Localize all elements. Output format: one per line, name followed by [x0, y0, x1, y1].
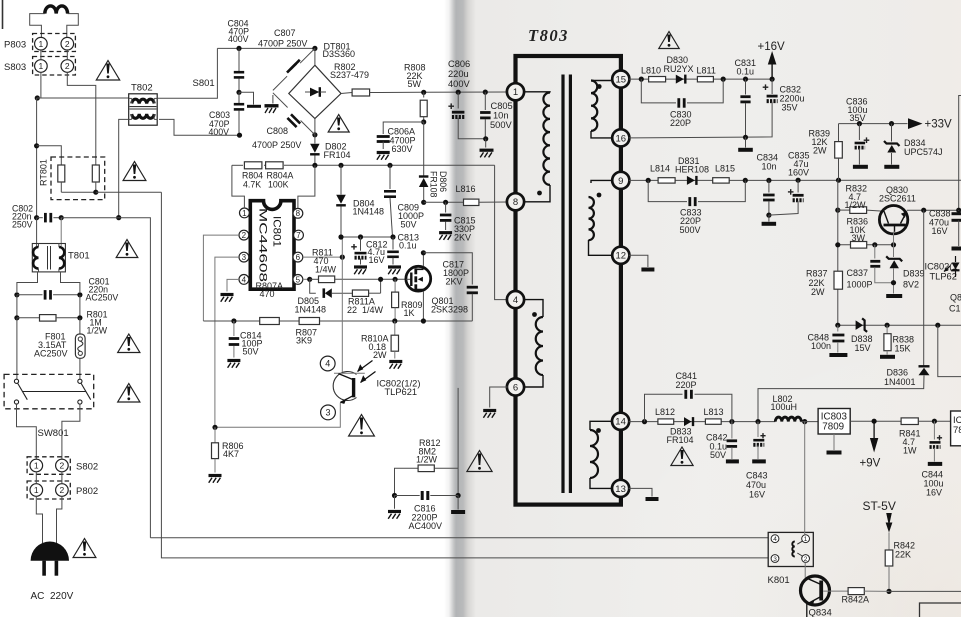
warning triangle 7 — [349, 415, 375, 437]
ground R810A — [389, 362, 402, 369]
svg-text:1/2W: 1/2W — [87, 326, 108, 336]
ground C812 — [354, 267, 367, 274]
svg-text:IC801: IC801 — [271, 216, 283, 247]
capacitor C831 — [735, 58, 757, 137]
relay K801 — [768, 532, 814, 586]
resistor R807A — [256, 281, 284, 325]
wire 15V row — [838, 324, 961, 326]
power ST-5V arrow — [863, 499, 896, 550]
wire source down — [422, 291, 424, 321]
capacitor C844 — [922, 421, 944, 497]
ground R806 — [209, 476, 222, 483]
svg-text:10n: 10n — [493, 110, 509, 120]
svg-text:L816: L816 — [456, 184, 476, 194]
pin 6 T803 — [507, 378, 524, 395]
node L815 right — [743, 178, 748, 183]
connector P803 — [4, 34, 75, 52]
winding T803 1-8 primary — [523, 92, 550, 202]
svg-text:250V: 250V — [12, 220, 33, 230]
node C803 bottom junction — [237, 133, 242, 138]
node D834 junction — [889, 121, 894, 126]
svg-text:2KV: 2KV — [446, 276, 463, 286]
ground C816 left — [388, 496, 401, 519]
IC regulator at right edge — [951, 411, 961, 446]
wire base row to edge — [889, 590, 961, 592]
svg-text:16: 16 — [616, 133, 627, 144]
svg-text:220P: 220P — [676, 380, 697, 390]
svg-text:Q834: Q834 — [809, 608, 832, 617]
pin 14 T803 — [612, 413, 629, 430]
node L802 IC803 junction — [800, 419, 818, 424]
ground R838 — [880, 355, 895, 359]
svg-text:2W: 2W — [811, 287, 825, 297]
resistor R806 — [212, 427, 244, 472]
svg-text:C808: C808 — [267, 126, 289, 136]
fuse F801 — [34, 318, 85, 379]
node C841 left — [642, 419, 647, 424]
wire C802 right to T801 — [60, 218, 62, 246]
resistor R804A — [266, 162, 294, 190]
wire pin14 row — [629, 421, 776, 423]
svg-text:16V: 16V — [369, 255, 385, 265]
ground C806A — [377, 153, 390, 160]
capacitor C806 — [448, 59, 486, 139]
ground C816 right — [451, 496, 465, 513]
wire IC803 output — [850, 420, 901, 422]
winding T803 9-12 secondary — [589, 180, 614, 255]
svg-text:100n: 100n — [811, 341, 831, 351]
pin 8 IC801 — [293, 208, 303, 218]
svg-text:TLP62: TLP62 — [930, 272, 957, 282]
svg-text:15K: 15K — [895, 343, 911, 353]
capacitor C808 on bridge edge — [252, 114, 301, 150]
svg-text:1W: 1W — [903, 446, 917, 456]
transformer T803 core box — [516, 26, 621, 505]
wire C801 to R801 left — [16, 295, 18, 318]
ground C814 — [227, 361, 240, 368]
svg-text:2: 2 — [60, 461, 65, 471]
svg-text:R842A: R842A — [842, 595, 870, 605]
svg-text:1: 1 — [34, 461, 39, 471]
diode D804 1N4148 — [336, 163, 384, 237]
svg-text:1: 1 — [804, 536, 808, 543]
svg-text:13: 13 — [615, 484, 626, 495]
wire vcc vertical — [341, 237, 343, 257]
winding T803 4-6 primary — [523, 300, 543, 387]
capacitor C834 — [757, 153, 779, 216]
node C831 gnd junction — [743, 135, 748, 140]
svg-text:+16V: +16V — [758, 41, 786, 53]
wire drain up — [422, 253, 424, 266]
node C805 gnd junction — [483, 136, 488, 141]
capacitor C807 on bridge edge — [258, 28, 307, 73]
node R808 top — [421, 90, 426, 95]
regulator IC803 7809 — [818, 409, 850, 453]
optocoupler IC802 LED half — [925, 256, 961, 314]
svg-text:1/2W: 1/2W — [416, 455, 438, 465]
inductor L810 — [641, 66, 666, 82]
warning triangle 1 — [96, 61, 119, 81]
svg-text:16V: 16V — [932, 226, 948, 236]
node AC-L junction — [35, 95, 40, 100]
svg-text:1/2W: 1/2W — [845, 200, 867, 210]
svg-text:FR104: FR104 — [324, 150, 351, 160]
svg-text:3: 3 — [325, 408, 330, 418]
svg-text:35V: 35V — [850, 113, 866, 123]
capacitor C801 — [14, 277, 118, 303]
wire pin8 to D802 node — [298, 165, 315, 208]
resistor R808 — [404, 63, 427, 123]
svg-text:+33V: +33V — [925, 119, 953, 131]
pin 7 IC801 — [294, 230, 304, 240]
ground pin12 — [641, 268, 654, 272]
ground C805 — [480, 139, 494, 158]
svg-text:C837: C837 — [847, 268, 869, 278]
label AC 220V — [31, 591, 74, 602]
svg-text:1: 1 — [34, 485, 39, 495]
connector P802 — [27, 481, 98, 499]
svg-text:RT801: RT801 — [39, 159, 49, 186]
svg-text:4: 4 — [513, 295, 518, 306]
svg-text:7: 7 — [296, 231, 301, 240]
node C844 junction — [932, 419, 937, 424]
inductor L813 — [704, 407, 724, 424]
capacitor C803 — [209, 92, 245, 137]
wire Q830 emitter rail — [907, 209, 961, 211]
node R806 junction — [212, 425, 217, 430]
ground at bridge left vertex — [265, 95, 279, 113]
warning triangle 5 — [118, 384, 140, 403]
inductor L811 — [697, 66, 716, 82]
svg-text:4: 4 — [325, 359, 330, 369]
node D804 vcc junction — [338, 234, 343, 239]
node C804 bottom junction — [236, 90, 241, 95]
node S801 label — [193, 78, 215, 89]
svg-text:MC44608: MC44608 — [257, 208, 269, 282]
svg-text:S801: S801 — [193, 78, 215, 89]
warning triangle 6 — [73, 539, 96, 558]
node RT801 bottom junction — [93, 190, 98, 195]
wire T802 bottom to C803 row — [159, 119, 240, 135]
svg-text:16V: 16V — [749, 489, 765, 499]
wire SW801 to S802 left — [17, 404, 37, 460]
svg-text:2: 2 — [60, 485, 65, 495]
capacitor C813 — [387, 232, 419, 264]
svg-text:L810: L810 — [641, 66, 661, 76]
svg-text:1N4148: 1N4148 — [295, 304, 327, 314]
node C804 top junction — [236, 46, 241, 51]
resistor R836 — [847, 217, 869, 249]
wire P803 to S803 stubs — [41, 50, 67, 60]
svg-text:L814: L814 — [650, 164, 670, 174]
capacitor C842 — [706, 422, 737, 460]
wire AC vertical left rail — [36, 98, 38, 218]
svg-text:16V: 16V — [926, 487, 942, 497]
capacitor C837 — [847, 245, 894, 289]
svg-text:220u: 220u — [448, 69, 469, 79]
zener D838 15V — [851, 318, 873, 352]
svg-text:1: 1 — [39, 39, 44, 49]
frame edge top-left — [2, 0, 4, 29]
svg-text:1000P: 1000P — [847, 279, 873, 289]
svg-text:R837: R837 — [806, 269, 828, 279]
svg-text:0.1u: 0.1u — [399, 240, 417, 250]
ground primary pin6 — [483, 411, 496, 418]
svg-text:C843: C843 — [746, 471, 768, 481]
svg-text:500V: 500V — [490, 120, 513, 130]
resistor R832 — [838, 184, 884, 214]
warning triangle 8 — [467, 451, 492, 472]
svg-text:1: 1 — [39, 61, 44, 71]
power +9V arrow — [860, 421, 881, 469]
wire C802 to long rail corner — [61, 218, 150, 538]
node L814 left — [646, 178, 651, 183]
wire pin15 row — [629, 78, 772, 80]
svg-text:3: 3 — [242, 253, 247, 262]
svg-text:AC250V: AC250V — [34, 349, 68, 359]
svg-text:6: 6 — [513, 382, 518, 393]
pin 8 T803 — [507, 193, 524, 210]
wire pin5 drive — [303, 278, 310, 280]
node Q830 base junction — [891, 232, 896, 248]
warning triangle 10 — [671, 447, 693, 466]
ground C834 — [762, 215, 777, 224]
capacitor C841 — [645, 371, 732, 422]
wire pin6 to primary ground — [490, 387, 508, 408]
svg-text:D839: D839 — [903, 269, 925, 279]
capacitor C816 — [392, 491, 461, 531]
warning triangle 9 — [659, 32, 679, 49]
wire degauss rail lower — [150, 537, 768, 539]
IC U IC801 MC44608 — [250, 201, 294, 290]
resistor R801 — [14, 310, 107, 336]
resistor R842A — [823, 588, 889, 605]
svg-text:Q8: Q8 — [950, 293, 961, 303]
diode D806 FR108 — [419, 122, 448, 202]
node R808 bottom — [421, 119, 426, 124]
ground C842 — [726, 459, 739, 463]
node L811 right — [721, 77, 726, 82]
node sense R810A junction — [392, 318, 397, 323]
svg-text:L812: L812 — [655, 407, 675, 417]
ground C844 — [928, 462, 942, 466]
resistor R839 — [809, 124, 843, 183]
wire pin9 row — [629, 179, 961, 181]
connector S803 — [4, 57, 75, 76]
svg-text:1K: 1K — [404, 308, 415, 318]
wire T801 right bottom — [61, 272, 80, 292]
switch SW801 — [4, 374, 94, 439]
node C836 junction — [857, 121, 862, 126]
svg-text:C806: C806 — [448, 59, 470, 69]
wire demag row — [232, 164, 495, 166]
node drain snubber top — [421, 200, 426, 205]
wire pin3 to control node — [215, 257, 239, 427]
AC plug — [31, 542, 69, 576]
pin 4 IC801 — [239, 275, 249, 285]
bridge rectifier DT801 D3S360 — [273, 42, 355, 138]
wire vcc rail — [341, 236, 393, 238]
pin 16 T803 — [612, 129, 629, 146]
svg-text:1: 1 — [513, 87, 518, 98]
ground C831 — [738, 137, 753, 150]
svg-text:22 1/4W: 22 1/4W — [347, 305, 384, 315]
wire pin13 to ground — [629, 488, 652, 496]
resistor R804 — [242, 162, 263, 190]
pin 6 IC801 — [293, 252, 303, 262]
zener D834 UPC574J — [884, 124, 943, 165]
svg-text:AC400V: AC400V — [409, 521, 443, 531]
node R836 left — [835, 242, 840, 247]
svg-text:ST-5V: ST-5V — [863, 499, 896, 513]
ground C843 — [752, 459, 766, 463]
svg-text:78: 78 — [953, 425, 961, 436]
capacitor C817 — [423, 253, 478, 321]
svg-text:100uH: 100uH — [771, 402, 798, 412]
svg-text:2: 2 — [242, 231, 247, 240]
resistor R807 — [296, 318, 320, 346]
node L813 right — [729, 419, 734, 424]
diode D831 HER108 — [675, 156, 709, 185]
ground C815 — [439, 233, 452, 240]
svg-text:4K7: 4K7 — [223, 449, 239, 459]
svg-text:400V: 400V — [228, 34, 249, 44]
pin 13 T803 — [612, 480, 629, 497]
capacitor C832 — [629, 79, 805, 138]
wire right edge loop — [938, 325, 961, 376]
svg-text:4: 4 — [242, 275, 247, 284]
svg-text:3: 3 — [773, 556, 777, 563]
svg-text:SW801: SW801 — [38, 428, 69, 439]
ground C848 — [829, 353, 847, 357]
svg-text:12: 12 — [616, 251, 627, 262]
wire R801 left to switch — [16, 318, 18, 379]
svg-text:630V: 630V — [392, 144, 413, 154]
ground C838 — [952, 247, 961, 251]
node pin6 vcc junction — [340, 255, 345, 260]
node source junction — [421, 318, 426, 323]
transformer T802 — [129, 83, 158, 126]
pin 4 opto marker — [320, 356, 335, 371]
capacitor C809 — [384, 163, 424, 237]
svg-text:2W: 2W — [373, 350, 387, 360]
svg-text:9: 9 — [618, 176, 623, 187]
svg-text:HER108: HER108 — [675, 164, 709, 174]
zener D839 8V2 — [886, 245, 924, 294]
svg-text:2SK3298: 2SK3298 — [431, 304, 468, 314]
node +9V junction — [872, 419, 877, 424]
pin 1 IC801 — [240, 208, 250, 218]
svg-text:T801: T801 — [68, 251, 90, 262]
pin 12 T803 — [612, 247, 629, 264]
svg-text:5: 5 — [296, 275, 301, 284]
warning triangle 2 below bridge — [328, 115, 349, 133]
svg-text:S802: S802 — [76, 462, 98, 473]
svg-text:220P: 220P — [670, 118, 691, 128]
node D802 demag junction — [312, 163, 317, 168]
ground C813 — [388, 267, 401, 274]
svg-text:2: 2 — [65, 61, 70, 71]
wire pin4 to ground — [227, 279, 239, 291]
resistor R842 — [885, 541, 915, 592]
svg-text:4700P 250V: 4700P 250V — [258, 39, 307, 49]
svg-text:D3S360: D3S360 — [323, 49, 356, 59]
capacitor C812 — [351, 234, 387, 264]
wire S803-2 to RT801 — [67, 72, 96, 165]
node R842 base junction — [886, 589, 891, 594]
wire secondary gnd to C816 — [457, 388, 459, 496]
capacitor C805 — [480, 90, 513, 139]
capacitor C838 — [929, 96, 961, 247]
wire +33V rail — [839, 123, 908, 125]
svg-text:L815: L815 — [715, 164, 735, 174]
inductor L816 — [424, 184, 508, 206]
node C834 gnd junction — [766, 213, 771, 218]
svg-text:8: 8 — [296, 209, 301, 218]
svg-text:470: 470 — [260, 289, 275, 299]
node drive jog — [307, 277, 312, 282]
node Q830 emitter junction — [921, 208, 926, 213]
ground D839 — [886, 294, 902, 298]
svg-text:5W: 5W — [408, 79, 422, 89]
svg-text:C1: C1 — [949, 304, 961, 314]
svg-text:1N4001: 1N4001 — [884, 377, 916, 387]
pin 2 IC801 — [239, 230, 249, 240]
svg-text:S803: S803 — [4, 62, 26, 73]
inductor L812 — [655, 407, 675, 424]
wire pin2 to sense row — [203, 235, 239, 321]
wire opto emitter to pin3 node — [215, 403, 340, 428]
resistor R802 — [330, 62, 420, 96]
svg-text:S237-479: S237-479 — [330, 70, 369, 80]
svg-text:1N4148: 1N4148 — [353, 206, 385, 216]
transistor Q830 2SC2611 — [879, 185, 916, 234]
resistor R838 — [884, 325, 914, 354]
svg-text:7809: 7809 — [822, 422, 844, 433]
transistor Q801 2SK3298 — [406, 266, 468, 314]
svg-text:0.1u: 0.1u — [737, 67, 755, 77]
wire K801 coil supply — [804, 422, 806, 535]
wire R836 row — [838, 244, 894, 246]
ground C836 — [853, 165, 868, 169]
warning triangle 4 — [118, 334, 140, 353]
wire T801 left bottom — [17, 272, 38, 292]
svg-text:160V: 160V — [788, 168, 809, 178]
capacitor C833 — [648, 180, 745, 234]
ground D834 — [884, 165, 899, 169]
svg-text:4.7K: 4.7K — [243, 179, 261, 189]
wire demag to pin1 — [232, 165, 245, 208]
svg-text:C807: C807 — [274, 28, 296, 38]
pin 15 T803 — [612, 71, 629, 88]
wire pin6 VCC — [303, 256, 343, 258]
capacitor C903 plate to ground — [239, 92, 261, 106]
node C848 junction — [835, 323, 840, 328]
svg-text:400V: 400V — [209, 127, 230, 137]
svg-text:2: 2 — [804, 556, 808, 563]
svg-text:AC 220V: AC 220V — [31, 591, 74, 602]
capacitor C802 — [12, 204, 61, 230]
svg-text:10n: 10n — [762, 162, 777, 172]
svg-text:FR104: FR104 — [667, 435, 694, 445]
capacitor C806A — [377, 122, 424, 154]
resistor R837 — [806, 269, 843, 298]
resistor R809 — [392, 277, 423, 321]
diode D805 and R811A branch — [295, 277, 384, 315]
svg-text:15: 15 — [616, 75, 627, 86]
ground IC801 pin4 — [221, 295, 234, 302]
svg-text:RU2YX: RU2YX — [664, 64, 694, 74]
